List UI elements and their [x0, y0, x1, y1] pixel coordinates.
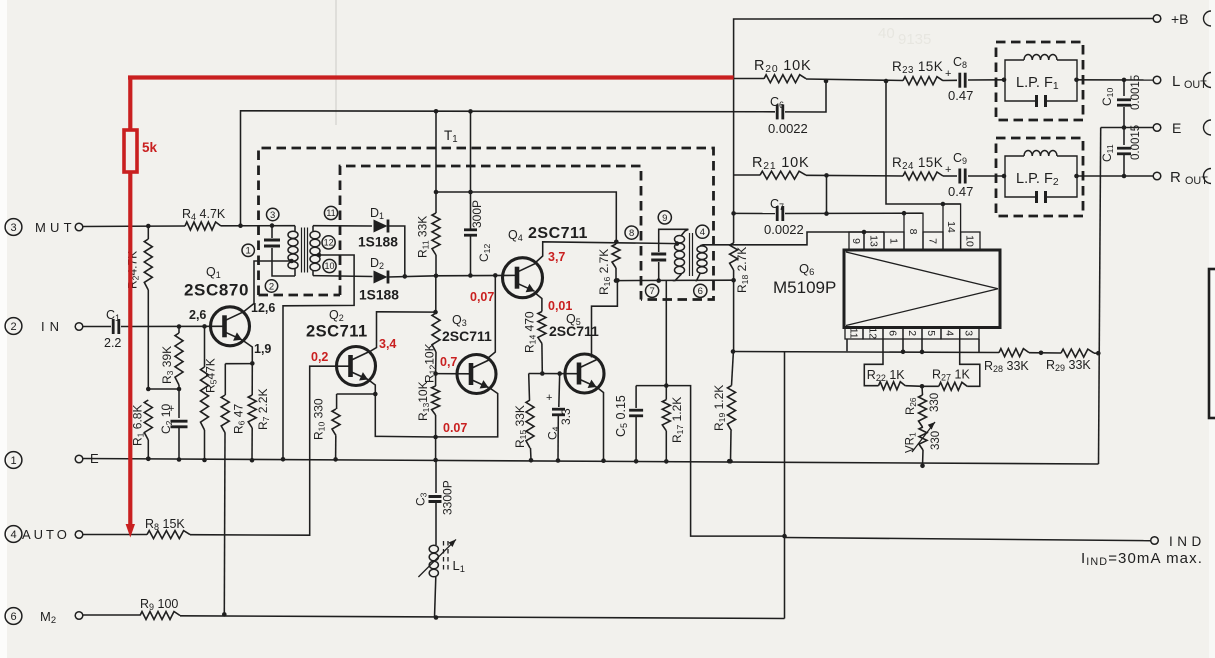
label I IND max: [1081, 550, 1203, 568]
resistor R3 39K: [160, 327, 183, 419]
wire MUT line: [83, 225, 295, 228]
resistor R21 10K: [752, 155, 809, 179]
capacitor C7 0.0022: [764, 197, 804, 237]
svg-text:IN: IN: [41, 319, 64, 334]
wire Q4 emitter / resistor R14 470: [523, 293, 546, 374]
svg-text:E: E: [1172, 120, 1181, 136]
svg-text:4: 4: [944, 330, 956, 336]
svg-text:330: 330: [930, 431, 942, 450]
wire C7 row: [734, 212, 923, 214]
svg-text:IND: IND: [1169, 534, 1206, 549]
svg-text:3,7: 3,7: [548, 250, 565, 264]
svg-text:AUTO: AUTO: [22, 527, 70, 542]
svg-text:2SC711: 2SC711: [306, 323, 368, 341]
svg-text:0.0022: 0.0022: [768, 121, 808, 136]
wire link R2-R3 bottoms: [148, 388, 179, 390]
svg-text:R17 1.2K: R17 1.2K: [670, 397, 685, 443]
terminal 3 MUT: [5, 219, 83, 236]
svg-text:14: 14: [945, 221, 957, 233]
wire +B top rail and main right column: [734, 19, 1154, 352]
inductor L1 (adjustable): [418, 503, 465, 618]
svg-text:3: 3: [10, 222, 16, 234]
wire Q5 base bus: [529, 371, 579, 376]
svg-text:1S188: 1S188: [358, 235, 398, 250]
resistor R2 4.7K: [126, 226, 153, 389]
IC pin 14: [943, 204, 961, 250]
svg-text:R18 2.7K: R18 2.7K: [735, 247, 750, 293]
capacitor C10 0.0015: [1100, 75, 1142, 128]
wire T1 bottom (pin10) to D2: [313, 275, 373, 278]
svg-text:MUT: MUT: [35, 220, 76, 235]
diode D1 1S188: [358, 206, 405, 276]
capacitor C12 300P: [464, 192, 492, 276]
svg-text:5k: 5k: [142, 140, 158, 155]
svg-text:R6 47: R6 47: [232, 404, 247, 434]
capacitor C2 10 (electrolytic): [159, 403, 188, 460]
svg-text:R19 1.2K: R19 1.2K: [712, 385, 727, 431]
label T1: [444, 128, 458, 145]
wire Q2 emitter: [337, 380, 436, 438]
resistor R28 33K: [984, 349, 1029, 374]
pin circle 7: [646, 284, 659, 297]
wire T1 tap pin12: [283, 253, 354, 460]
LPF1 block: [996, 42, 1083, 120]
resistor R5 47K: [201, 326, 219, 460]
svg-text:3.3: 3.3: [559, 408, 573, 425]
node R1/R2/R3: [146, 387, 151, 392]
svg-text:7: 7: [649, 286, 654, 297]
terminal R OUT: [1153, 169, 1208, 187]
wire IC ground column x784: [782, 351, 787, 619]
resistor R1 6.8K: [131, 400, 153, 459]
resistor R27 1K: [922, 368, 970, 391]
wire E rail: [83, 459, 1099, 465]
label Q5: [549, 312, 599, 339]
svg-text:R1 6.8K: R1 6.8K: [131, 405, 146, 446]
svg-text:+: +: [945, 164, 951, 176]
svg-text:R22 1K: R22 1K: [867, 368, 905, 383]
terminal 6 M2: [5, 608, 83, 625]
IC pin 13: [864, 232, 884, 250]
svg-text:5: 5: [925, 330, 937, 336]
svg-text:R24 15K: R24 15K: [892, 155, 943, 172]
wire T2 pin4 to IC pins 9/13: [706, 230, 884, 245]
IC pin 12: [863, 327, 883, 339]
dashed shield box inner opening: [340, 166, 641, 300]
IC pin 2: [903, 328, 922, 340]
svg-text:300P: 300P: [470, 200, 484, 228]
svg-text:6: 6: [10, 611, 16, 623]
resistor R20 10K: [754, 58, 811, 83]
transformer T1 core: [302, 228, 308, 273]
svg-text:C5 0.15: C5 0.15: [614, 395, 629, 437]
capacitor T1 tank: [264, 240, 280, 246]
transformer T1 secondary winding: [310, 226, 320, 276]
svg-text:R26: R26: [905, 397, 918, 415]
wire Q3 emitter: [436, 388, 498, 437]
svg-text:R8 15K: R8 15K: [145, 517, 185, 532]
wire M2 line: [83, 615, 785, 619]
label Q1: [184, 265, 249, 300]
red wire vertical: [128, 78, 132, 528]
svg-text:2: 2: [906, 330, 918, 336]
pin circle 3: [267, 208, 279, 221]
resistor R23 15K: [892, 59, 943, 85]
IC pin 8: [904, 213, 923, 250]
svg-text:1: 1: [10, 455, 16, 467]
IC pin 6: [883, 328, 903, 340]
node MUT junction: [146, 224, 151, 229]
label Q4: [508, 225, 588, 243]
resistor R19 1.2K: [712, 352, 736, 462]
capacitor C4 3.3 (electrolytic): [546, 374, 574, 461]
wire C9 feed from C7 row: [826, 175, 828, 213]
LPF2 block: [996, 138, 1083, 216]
svg-text:4: 4: [10, 529, 16, 541]
wire feedback line A: [436, 111, 616, 241]
svg-text:+: +: [546, 392, 552, 404]
wire pin stubs to rail: [847, 339, 979, 352]
IC pin 7: [923, 232, 943, 250]
resistor R13 10K: [416, 371, 440, 460]
red wire horizontal (added 5k mod): [128, 75, 734, 79]
svg-text:1,9: 1,9: [254, 342, 271, 356]
svg-text:2: 2: [10, 321, 16, 333]
svg-text:6: 6: [886, 330, 898, 336]
resistor R10 330: [312, 394, 341, 459]
node C6 line junctions: [434, 109, 439, 114]
IC pin 4: [941, 328, 960, 340]
svg-text:11: 11: [847, 328, 859, 339]
svg-text:R20 10K: R20 10K: [754, 58, 811, 75]
svg-text:3,4: 3,4: [379, 337, 396, 351]
svg-text:330: 330: [929, 393, 941, 412]
svg-text:11: 11: [326, 208, 335, 218]
wire pin7 net to M2 join: [666, 386, 784, 536]
wire E riser down to E rail: [1099, 128, 1101, 465]
transformer T1 primary winding: [288, 226, 298, 276]
wire Q1 collector to T1 tap: [242, 261, 292, 313]
svg-text:R21 10K: R21 10K: [752, 155, 809, 172]
wire T1 pin3 resonant cap branch: [272, 226, 295, 276]
terminal 4 AUTO: [5, 526, 83, 543]
transistor Q2 2SC711: [337, 347, 376, 386]
capacitor T2 tank: [651, 254, 666, 260]
svg-text:L.P. F2: L.P. F2: [1016, 171, 1059, 188]
resistor R17 1.2K: [662, 386, 685, 462]
svg-text:10: 10: [324, 261, 334, 271]
pin circle 4: [696, 225, 709, 238]
svg-text:1S188: 1S188: [359, 288, 399, 303]
svg-text:0,07: 0,07: [470, 290, 494, 304]
svg-text:VR1: VR1: [905, 432, 918, 453]
svg-text:R27 1K: R27 1K: [932, 368, 970, 383]
capacitor C1 2.2: [104, 308, 121, 350]
svg-text:2SC870: 2SC870: [184, 281, 249, 300]
pin circle 12: [322, 236, 335, 249]
terminal 1 E: [5, 451, 99, 468]
resistor R29 33K: [1046, 349, 1094, 373]
capacitor C5 0.15: [614, 386, 643, 462]
svg-text:9: 9: [850, 238, 862, 244]
svg-text:R1310K: R1310K: [416, 381, 431, 421]
svg-text:0.0015: 0.0015: [1130, 125, 1142, 160]
svg-text:9135: 9135: [898, 31, 931, 48]
svg-text:9: 9: [662, 213, 667, 224]
svg-text:0.0015: 0.0015: [1130, 75, 1142, 110]
resistor R22 1K: [867, 368, 922, 390]
svg-text:2SC711: 2SC711: [528, 225, 588, 242]
svg-text:+: +: [945, 68, 951, 80]
IC pin 3: [960, 328, 979, 340]
pin circle 2: [265, 280, 277, 293]
svg-text:2.2: 2.2: [104, 336, 121, 350]
terminal L OUT: [1153, 73, 1207, 91]
terminal +B: [1153, 11, 1188, 27]
pin circle 6: [694, 284, 707, 297]
pin circle 10: [323, 259, 336, 272]
IC pin 11: [845, 328, 863, 340]
capacitor C9 0.47: [945, 151, 973, 199]
svg-text:R16 2.7K: R16 2.7K: [597, 249, 612, 295]
IC pin 9: [849, 232, 864, 250]
svg-text:3: 3: [270, 210, 275, 221]
svg-text:R14 470: R14 470: [523, 311, 538, 353]
wire IND line: [785, 538, 1151, 541]
resistor R18 2.7K: [730, 243, 750, 293]
diode D2 1S188: [359, 256, 399, 303]
IC pin 5: [922, 328, 941, 340]
svg-text:+B: +B: [1171, 11, 1189, 27]
svg-text:R28 33K: R28 33K: [984, 359, 1029, 374]
red resistor 5k box: [124, 130, 158, 172]
svg-text:0,7: 0,7: [440, 355, 457, 369]
resistor R16 2.7K: [597, 241, 620, 295]
capacitor C6: [768, 95, 808, 136]
capacitor C8 0.47: [945, 55, 973, 103]
IC pin 1: [884, 232, 904, 250]
svg-text:R3 39K: R3 39K: [160, 346, 175, 384]
svg-text:2SC711: 2SC711: [442, 328, 492, 344]
svg-text:2,6: 2,6: [189, 308, 206, 322]
wire AUTO line to Q2 base riser: [83, 366, 351, 535]
svg-text:0.07: 0.07: [443, 421, 467, 435]
resistor R6 47 (down to M2 line): [221, 364, 246, 615]
wire T2 pin7 rail: [616, 279, 734, 281]
terminal E right: [1153, 120, 1181, 136]
svg-text:8: 8: [907, 229, 919, 235]
terminal 2 IN: [5, 318, 83, 335]
svg-text:1: 1: [887, 238, 899, 244]
svg-text:R547K: R547K: [204, 358, 219, 393]
transformer T2 core: [690, 233, 693, 276]
transformer T2 primary winding: [673, 229, 689, 280]
svg-text:R4 4.7K: R4 4.7K: [182, 207, 226, 222]
wire R-channel row (R21-R24-C9): [734, 175, 1004, 176]
svg-text:1: 1: [246, 246, 251, 257]
svg-text:+: +: [168, 403, 174, 415]
edge pin circles cut off: [1204, 11, 1212, 184]
svg-text:6: 6: [698, 286, 703, 297]
red arrowhead at AUTO line: [126, 524, 135, 538]
pin circle 8: [625, 226, 638, 239]
svg-text:0.47: 0.47: [948, 184, 973, 199]
wire LPF2 to R OUT: [1077, 174, 1154, 179]
svg-text:3: 3: [963, 330, 975, 336]
wire IN line: [83, 325, 224, 327]
wire Q4 collector to T2 tap: [535, 242, 677, 263]
wire Q5 emitter: [597, 387, 604, 461]
wire detected audio line (Q4 base bus): [388, 275, 517, 277]
svg-text:2: 2: [269, 281, 274, 292]
variable resistor VR1 330: [905, 422, 943, 466]
resistor R8 15K: [145, 517, 190, 539]
wire Q1 emitter: [225, 341, 252, 364]
wire T1 secondary top (pin11) to D1: [313, 225, 372, 227]
wire pin12 jog to R22: [864, 339, 883, 386]
capacitor C11 0.0015: [1100, 125, 1142, 176]
svg-text:3300P: 3300P: [441, 480, 455, 515]
svg-text:R9 100: R9 100: [140, 597, 178, 612]
wire L-channel row (R20-R23-C8): [734, 79, 1004, 81]
wire IC bottom rail: [733, 352, 1099, 354]
transistor Q5 2SC711: [565, 354, 604, 393]
wire LPF1 to L OUT: [1077, 78, 1154, 83]
svg-text:0,01: 0,01: [548, 299, 572, 313]
wire Q2 collector net: [369, 312, 436, 352]
transistor Q4 2SC711: [503, 258, 543, 298]
svg-text:R29 33K: R29 33K: [1046, 358, 1091, 373]
svg-text:R23 15K: R23 15K: [892, 59, 943, 76]
resistor R24 15K: [892, 155, 943, 180]
IC pin 10: [961, 232, 980, 250]
pin circle 1: [242, 244, 254, 257]
label Q6 M5109P: [773, 261, 836, 297]
wire E terminal line: [1101, 125, 1154, 130]
wire Q5 collector riser: [592, 280, 618, 357]
resistor R7 2.2K: [248, 363, 271, 460]
svg-text:0,2: 0,2: [311, 350, 328, 364]
resistor R4 4.7K: [182, 207, 226, 230]
resistor R11 33K: [416, 192, 441, 276]
svg-text:R24.7K: R24.7K: [126, 251, 141, 289]
svg-text:R7 2.2K: R7 2.2K: [256, 389, 271, 430]
svg-text:12: 12: [866, 327, 878, 339]
terminal IND: [1151, 534, 1206, 549]
svg-text:0.0022: 0.0022: [764, 222, 804, 237]
wire pin7 net down to C5/R17: [636, 281, 666, 386]
dashed shield box outer (T1): [259, 148, 714, 300]
IC Q6 M5109P body: [844, 250, 1000, 328]
resistor R9 100: [140, 597, 180, 620]
svg-text:4: 4: [700, 227, 705, 238]
wire T2 pin9 hook / tank cap branch: [659, 229, 689, 280]
svg-text:7: 7: [926, 238, 938, 244]
wire C12 top riser: [470, 111, 472, 192]
wire mute feed line to C6: [241, 81, 827, 226]
wire Q3 base: [436, 373, 471, 375]
svg-text:L.P. F1: L.P. F1: [1016, 75, 1059, 92]
svg-text:R11 33K: R11 33K: [416, 216, 431, 258]
svg-text:R10 330: R10 330: [312, 398, 327, 440]
label Q3: [442, 313, 492, 344]
resistor R12 10K: [423, 276, 441, 383]
resistor R15 33K: [513, 374, 534, 461]
transistor Q3 2SC711: [457, 355, 496, 394]
svg-text:13: 13: [867, 235, 879, 247]
junction dots on E rail: [146, 457, 151, 462]
svg-text:8: 8: [629, 228, 634, 239]
svg-text:M5109P: M5109P: [773, 278, 836, 297]
wire pin4 jog to R27: [960, 339, 980, 386]
capacitor C3 3300P: [414, 460, 455, 515]
svg-text:40: 40: [878, 25, 895, 42]
corner of external box at right edge: [1209, 269, 1215, 418]
pin circle 11: [324, 206, 337, 219]
transistor Q1 2SC870: [211, 307, 250, 346]
pin circle 9: [658, 211, 671, 224]
svg-text:12: 12: [324, 238, 334, 248]
faint bleed-through marks: [878, 25, 931, 48]
resistor R26 330: [905, 386, 941, 427]
svg-text:10: 10: [964, 235, 976, 247]
wire Q3 collector riser: [488, 275, 495, 358]
svg-text:R15 33K: R15 33K: [513, 405, 528, 448]
transformer T2 secondary winding: [695, 245, 707, 281]
svg-text:0.47: 0.47: [948, 88, 973, 103]
label Q2: [306, 308, 368, 341]
wire L feed to pin 14: [886, 81, 961, 206]
